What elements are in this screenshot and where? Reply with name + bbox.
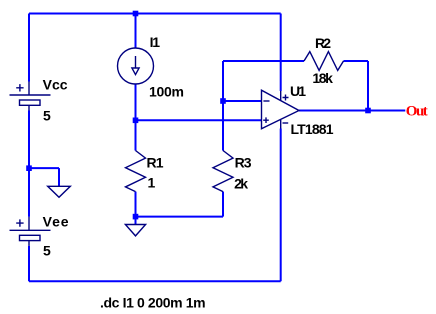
junction at top rail / I1: [133, 11, 139, 17]
svg-text:100m: 100m: [149, 84, 184, 100]
wire left column Vcc to Vee: [28, 111, 30, 217]
wire feedback drop to output: [367, 61, 369, 111]
svg-text:R2: R2: [315, 35, 331, 51]
current source I1: [118, 48, 154, 84]
junction at minus input node: [220, 98, 226, 104]
wire feedback riser: [222, 61, 224, 101]
svg-text:I1: I1: [150, 34, 161, 50]
wire ground2 stub: [135, 217, 137, 225]
wire bottom link R1 to R3: [136, 216, 224, 218]
voltage source Vcc (battery): [10, 82, 51, 111]
wire right column to op-amp V- pin: [280, 129, 282, 282]
wire I1 top branch: [135, 14, 137, 49]
svg-text:LT1881: LT1881: [291, 121, 334, 137]
junction at left column / ground1: [26, 165, 32, 171]
wire feedback to R2 left: [223, 60, 304, 62]
ground (below R1): [125, 225, 145, 236]
svg-text:.dc I1 0 200m 1m: .dc I1 0 200m 1m: [100, 295, 206, 311]
wire R3 top: [222, 101, 224, 151]
resistor R2 (feedback): [304, 52, 344, 71]
junction at output node: [365, 108, 371, 114]
svg-text:Out: Out: [406, 103, 428, 119]
op-amp U1: [262, 90, 300, 129]
wire I1 bottom to R1 top: [135, 84, 137, 151]
svg-text:R3: R3: [235, 155, 252, 171]
junction at I1 bottom / plus rail: [133, 118, 139, 124]
svg-text:Vee: Vee: [43, 213, 69, 229]
svg-text:2k: 2k: [234, 175, 248, 191]
wire output to Out label: [299, 110, 405, 112]
wire minus-input to op-amp: [223, 100, 262, 102]
wire op-amp V+ drop from top rail: [280, 14, 282, 92]
svg-text:Vcc: Vcc: [43, 77, 68, 93]
resistor R1: [126, 151, 146, 192]
wire ground1 branch horizontal: [29, 167, 59, 169]
junction at R1 bottom / ground2: [133, 214, 139, 220]
wire R3 bottom drop: [222, 192, 224, 217]
wire left column below Vee: [28, 246, 30, 281]
ground (near Vcc/Vee node): [48, 186, 71, 197]
wire left column above Vcc: [28, 14, 30, 82]
svg-text:5: 5: [43, 243, 51, 259]
wire top rail from Vcc column to op-amp V+ drop: [29, 13, 281, 15]
svg-text:18k: 18k: [312, 70, 333, 86]
wire R1 bottom: [135, 192, 137, 217]
svg-text:1: 1: [148, 175, 156, 191]
wire ground1 branch vertical: [58, 168, 60, 186]
svg-text:5: 5: [43, 107, 51, 123]
svg-text:R1: R1: [147, 155, 164, 171]
wire R2 right to corner: [344, 60, 369, 62]
svg-text:U1: U1: [290, 83, 306, 99]
voltage source Vee (battery): [10, 217, 51, 246]
wire bottom rail: [29, 280, 281, 282]
wire plus-input rail to op-amp: [136, 119, 262, 121]
resistor R3: [213, 151, 233, 192]
